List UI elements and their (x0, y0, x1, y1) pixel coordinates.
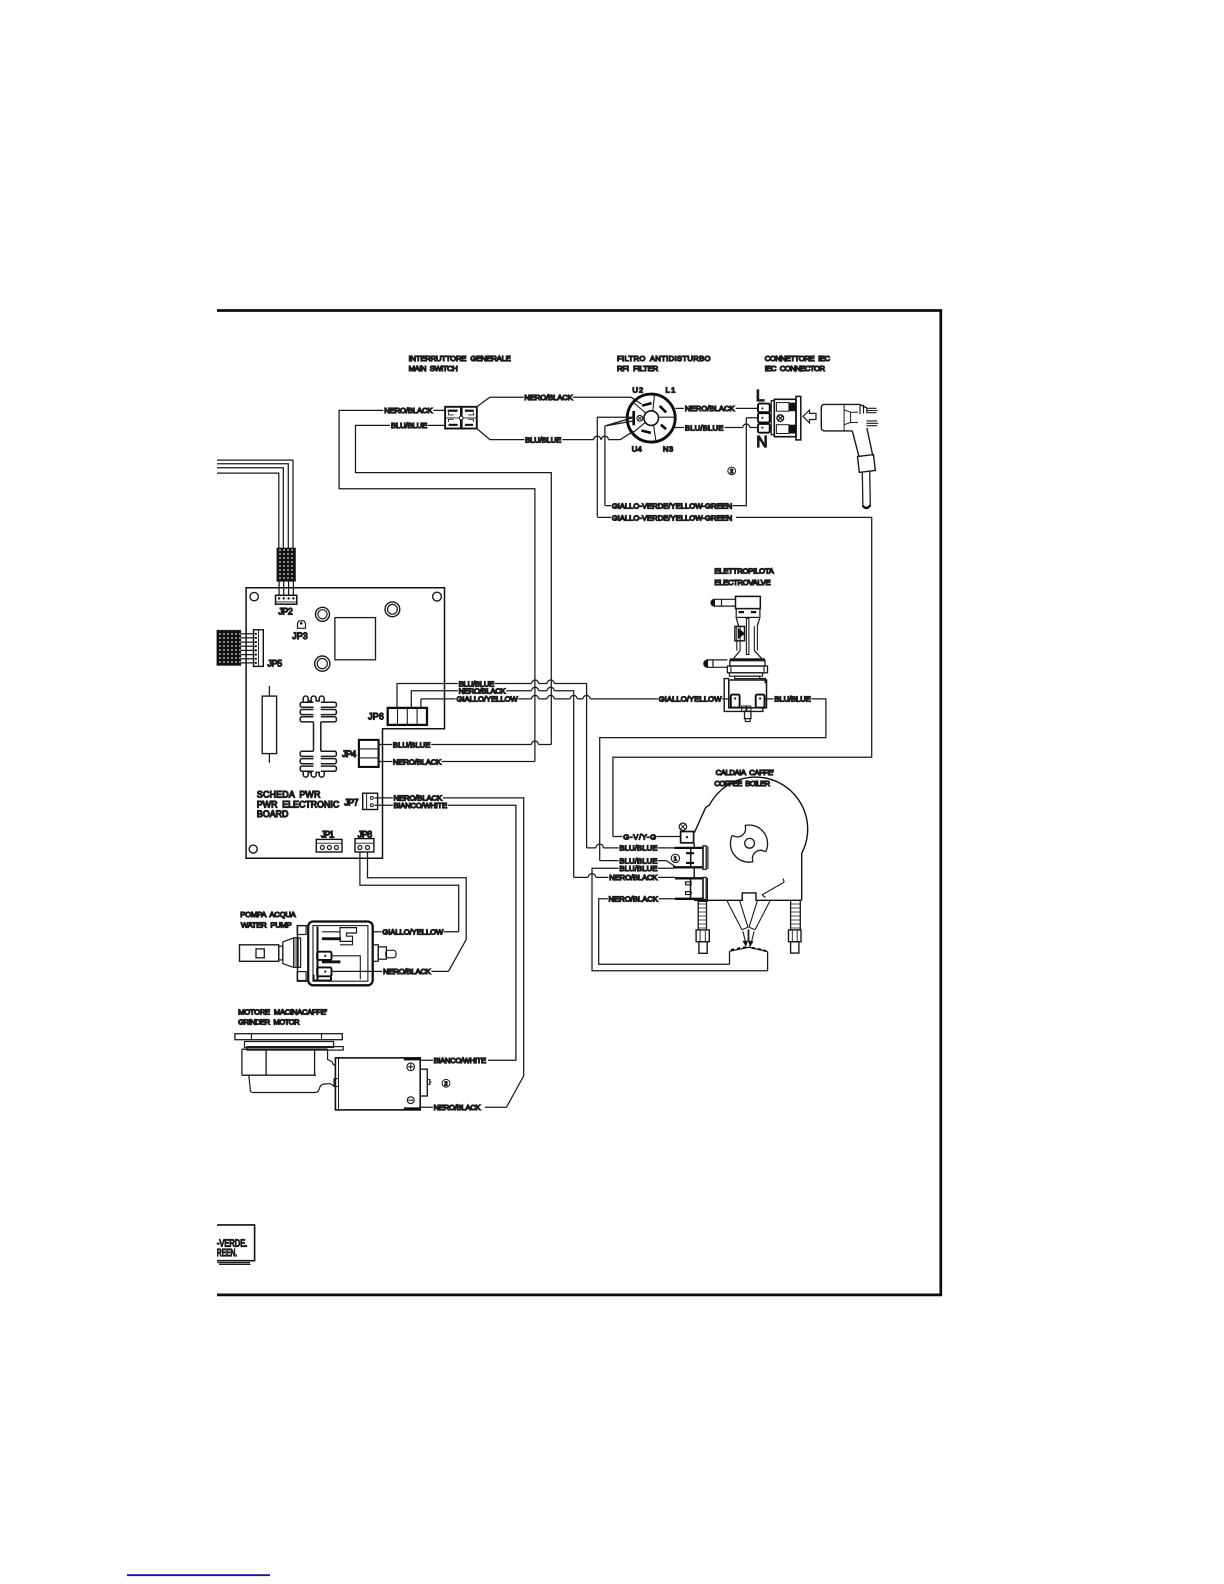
svg-text:JP7: JP7 (344, 798, 358, 808)
svg-text:JP6: JP6 (368, 712, 384, 722)
svg-text:BLU/BLUE: BLU/BLUE (619, 844, 657, 853)
wire NERO/BLACK main switch left to JP4 (339, 410, 535, 761)
svg-text:IEC CONNECTOR: IEC CONNECTOR (765, 364, 826, 373)
boiler heater stud left (696, 901, 709, 953)
electrovalve coil terminal (BLU) (756, 695, 765, 708)
svg-text:BLU/BLUE: BLU/BLUE (391, 421, 427, 430)
IC U100 square (335, 618, 376, 660)
wire BLU/BLUE lower to boiler block bottom (592, 868, 768, 970)
wire GIALLO/YELLOW JP6 to electrovalve (421, 695, 658, 708)
mounting hole bottom-left (249, 845, 257, 853)
wire GIALLO/YELLOW JP8 pin1 to pump (360, 852, 459, 932)
svg-text:CALDAIA CAFFE': CALDAIA CAFFE' (716, 768, 775, 777)
note box GIALLO-VERDE / YELLOW-GREEN (217, 1225, 255, 1265)
connector JP1 (316, 839, 342, 852)
svg-text:BOARD: BOARD (257, 809, 289, 819)
wire BIANCO/WHITE JP7 to grinder motor (375, 805, 516, 1060)
pad ring A (316, 607, 330, 621)
note symbol 2 (circled) at grinder (442, 1079, 450, 1087)
water pump M1 body (308, 922, 373, 986)
connector JP2 (276, 595, 297, 604)
heatsink (300, 696, 336, 777)
svg-text:JP4: JP4 (342, 749, 356, 759)
svg-text:BLU/BLUE: BLU/BLUE (393, 740, 431, 749)
svg-text:JP5: JP5 (267, 658, 282, 668)
PCB board outline (SCHEDA PWR) (246, 588, 444, 858)
svg-text:NERO/BLACK: NERO/BLACK (434, 1103, 482, 1112)
svg-text:BLU/BLUE: BLU/BLUE (685, 423, 724, 432)
capacitor C1 (262, 686, 276, 763)
grinder motor screw minus (407, 1097, 414, 1104)
wire NERO/BLACK JP8 pin2 to pump (332, 852, 467, 971)
main switch S1 (445, 407, 477, 429)
grinder motor M2 (334, 1058, 432, 1110)
connector JP7 (363, 793, 378, 809)
svg-text:PWR ELECTRONIC: PWR ELECTRONIC (257, 799, 340, 809)
pump spade terminal mid (317, 952, 331, 960)
svg-text:CONNETTORE IEC: CONNETTORE IEC (765, 354, 831, 363)
svg-text:GRINDER MOTOR: GRINDER MOTOR (238, 1018, 300, 1027)
boiler ground screw (679, 823, 686, 830)
boiler level sensor mound (730, 947, 768, 971)
IEC inlet connector J1 (758, 396, 801, 440)
grinder motor screw plus (407, 1063, 415, 1071)
label POMPA ACQUA / WATER PUMP title (240, 910, 296, 929)
wire GIALLO/YELLOW label stub into valve (722, 698, 731, 700)
svg-text:FILTRO ANTIDISTURBO: FILTRO ANTIDISTURBO (617, 354, 711, 363)
connector JP6 (388, 708, 427, 725)
mounting hole top-left (250, 592, 258, 600)
boiler ground spade terminal (681, 832, 694, 843)
RFI filter ground terminal bar and screw (634, 411, 643, 425)
svg-text:JP2: JP2 (278, 607, 292, 617)
label CONNETTORE IEC / IEC CONNECTOR title (765, 354, 831, 373)
svg-text:NERO/BLACK: NERO/BLACK (685, 404, 736, 413)
svg-text:1: 1 (674, 857, 677, 863)
svg-text:POMPA ACQUA: POMPA ACQUA (240, 910, 296, 919)
pump outlet right (373, 945, 396, 962)
boiler probe right (748, 900, 770, 947)
svg-text:JP3: JP3 (292, 631, 307, 641)
grinder assembly body (235, 1034, 343, 1093)
wire BLU/BLUE filter to IEC N pin (675, 424, 758, 428)
wire NERO/BLACK lower loop to heater stud (599, 899, 730, 965)
RFI filter L1 body (627, 394, 675, 442)
label SCHEDA PWR / PWR ELECTRONIC / BOARD (257, 790, 340, 820)
svg-text:L1: L1 (666, 385, 676, 394)
wire BLU/BLUE main switch left to JP4 (356, 425, 552, 744)
wire NERO/BLACK filter to IEC L pin (675, 407, 758, 409)
svg-text:GIALLO-VERDE/YELLOW-GREEN: GIALLO-VERDE/YELLOW-GREEN (612, 513, 733, 522)
wire NERO/BLACK JP7 to grinder motor (375, 798, 524, 1107)
svg-text:NERO/BLACK: NERO/BLACK (524, 393, 573, 402)
svg-text:GIALLO/YELLOW: GIALLO/YELLOW (382, 928, 444, 937)
svg-text:COFFEE BOILER: COFFEE BOILER (714, 779, 770, 788)
boiler terminal block lower (NERO) (675, 877, 707, 904)
svg-text:U4: U4 (632, 445, 643, 454)
svg-text:JP8: JP8 (358, 829, 372, 839)
wire GIALLO-VERDE ground filter to IEC earth pin (597, 417, 758, 517)
pump shaft and flange (240, 926, 309, 982)
svg-text:REEN.: REEN. (217, 1248, 237, 1259)
svg-text:GIALLO-VERDE/YELLOW-GREEN: GIALLO-VERDE/YELLOW-GREEN (612, 502, 733, 511)
svg-text:JP1: JP1 (321, 829, 334, 839)
svg-text:G-V/Y-G: G-V/Y-G (623, 832, 656, 841)
cable bundle to JP5 (8 twisted wires) (217, 630, 255, 665)
connector JP4 (359, 740, 379, 767)
pad ring B (385, 602, 400, 617)
note symbol 2 (circled) near IEC (728, 467, 736, 475)
svg-text:BLU/BLUE: BLU/BLUE (525, 435, 561, 444)
svg-text:2: 2 (730, 469, 733, 475)
arrow (plug insertion direction) (803, 410, 816, 423)
svg-text:U2: U2 (632, 385, 643, 394)
connector JP8 (355, 839, 374, 852)
svg-text:BLU/BLUE: BLU/BLUE (774, 695, 810, 704)
label ELETTROPILOTA / ELECTROVALVE title (714, 566, 774, 587)
mounting hole top-right (433, 592, 442, 601)
pad ring C (315, 656, 330, 671)
power plug P1 (821, 404, 878, 508)
label FILTRO ANTIDISTURBO / RFI FILTER title (617, 354, 711, 373)
svg-text:2: 2 (444, 1081, 447, 1087)
svg-text:SCHEDA PWR: SCHEDA PWR (257, 790, 320, 800)
wire NERO/BLACK JP6-side into boiler lower block (with hop) (574, 874, 675, 878)
boiler inner rotor plate (729, 820, 769, 867)
svg-text:RFI FILTER: RFI FILTER (617, 364, 659, 373)
svg-text:MOTORE MACINACAFFE': MOTORE MACINACAFFE' (238, 1007, 328, 1016)
svg-text:NERO/BLACK: NERO/BLACK (609, 873, 658, 882)
wire BLU/BLUE electrovalve to boiler terminal 1 (600, 699, 826, 868)
label MOTORE MACINACAFFE' / GRINDER MOTOR title (238, 1007, 328, 1026)
svg-text:N: N (756, 434, 767, 451)
label INTERRUTTORE GENERALE / MAIN SWITCH title (409, 354, 511, 373)
electrovalve coil terminal (GIALLO) (731, 695, 740, 708)
boiler heater stud right (789, 900, 802, 953)
wire G-V/Y-G stub (613, 836, 681, 838)
svg-text:ELECTROVALVE: ELECTROVALVE (714, 578, 770, 587)
label CALDAIA CAFFE' / COFFEE BOILER title (714, 768, 774, 788)
svg-text:ELETTROPILOTA: ELETTROPILOTA (714, 566, 774, 575)
boiler terminal block upper (BLU) (673, 846, 708, 870)
electrovalve Y1 body (704, 596, 768, 721)
coffee boiler body (694, 777, 807, 900)
svg-text:MAIN SWITCH: MAIN SWITCH (409, 364, 458, 373)
svg-text:NERO/BLACK: NERO/BLACK (393, 757, 442, 766)
svg-text:N3: N3 (663, 445, 673, 454)
svg-text:WATER PUMP: WATER PUMP (241, 920, 292, 929)
wire BLU/BLUE JP6-side into boiler block (with hop) (587, 844, 675, 848)
svg-text:GIALLO/YELLOW: GIALLO/YELLOW (457, 695, 519, 704)
svg-text:GIALLO/YELLOW: GIALLO/YELLOW (659, 695, 723, 704)
note symbol 1 (circled) at boiler (671, 854, 679, 862)
LED JP3 symbol (298, 621, 306, 629)
svg-text:NERO/BLACK: NERO/BLACK (384, 406, 433, 415)
boiler probe left (727, 900, 749, 947)
cable bundle to JP2 (4 twisted wires) (217, 460, 296, 595)
svg-text:NERO/BLACK: NERO/BLACK (383, 967, 432, 976)
svg-text:BLU/BLUE: BLU/BLUE (619, 864, 657, 873)
pump spade terminal lower (317, 967, 331, 976)
wire NERO/BLACK JP6 to boiler (411, 687, 573, 877)
svg-text:BIANCO/WHITE: BIANCO/WHITE (434, 1056, 487, 1065)
wire BLU/BLUE JP6 to boiler (397, 680, 587, 848)
svg-text:BIANCO/WHITE: BIANCO/WHITE (394, 801, 448, 810)
wire NERO/BLACK switch to RFI filter U2 (477, 397, 642, 407)
wire GIALLO-VERDE ground to boiler (597, 517, 871, 836)
svg-text:INTERRUTTORE GENERALE: INTERRUTTORE GENERALE (409, 354, 511, 363)
connector JP5 (254, 630, 264, 667)
wire BLU/BLUE switch to RFI filter U4 (477, 429, 634, 440)
svg-text:NERO/BLACK: NERO/BLACK (609, 895, 659, 904)
